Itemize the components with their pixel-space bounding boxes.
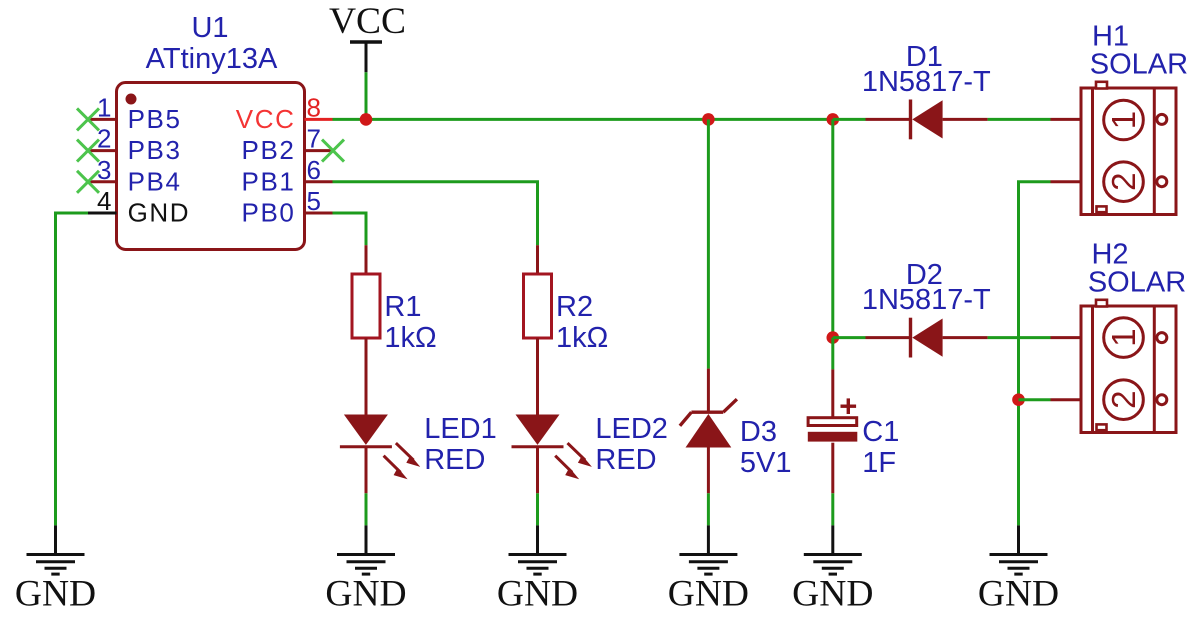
svg-text:ATtiny13A: ATtiny13A [146, 43, 278, 75]
svg-text:1kΩ: 1kΩ [556, 322, 608, 354]
svg-text:R2: R2 [556, 291, 593, 323]
pin 4 GND [88, 186, 190, 228]
svg-text:1N5817-T: 1N5817-T [862, 284, 991, 316]
junction at D3 column [702, 113, 715, 126]
svg-text:U1: U1 [191, 12, 228, 44]
svg-text:GND: GND [325, 574, 406, 615]
wire VCC rail to D3 [707, 119, 710, 368]
svg-text:6: 6 [307, 155, 323, 185]
svg-text:5: 5 [307, 186, 323, 216]
svg-text:1N5817-T: 1N5817-T [862, 66, 991, 98]
capacitor C1 [808, 369, 858, 493]
svg-text:GND: GND [497, 574, 578, 615]
no-connect X pin 7 [322, 140, 344, 162]
diode D2 [866, 318, 988, 358]
svg-text:GND: GND [128, 198, 191, 228]
ground symbol under H2 [978, 525, 1059, 614]
wire D2 junction to diode [833, 336, 866, 339]
svg-text:LED1: LED1 [424, 413, 497, 445]
svg-text:D3: D3 [740, 416, 777, 448]
svg-text:GND: GND [792, 574, 873, 615]
svg-text:R1: R1 [384, 291, 421, 323]
no-connect X pin 1 [77, 108, 99, 130]
svg-text:PB2: PB2 [242, 135, 296, 165]
svg-text:7: 7 [307, 124, 323, 154]
svg-text:PB1: PB1 [242, 166, 296, 196]
svg-text:1: 1 [97, 92, 113, 122]
wire D3 to GND [707, 493, 710, 525]
svg-text:1kΩ: 1kΩ [384, 322, 436, 354]
svg-text:VCC: VCC [236, 104, 296, 134]
ground symbol under D3 [668, 525, 749, 614]
wire U1 pin4 to GND [56, 213, 89, 525]
svg-text:2: 2 [1105, 173, 1142, 191]
pin 6 PB1 [242, 155, 333, 197]
wire H2 pin2 to junction [1019, 398, 1051, 401]
junction at H2 pin2 [1012, 393, 1025, 406]
svg-text:GND: GND [668, 574, 749, 615]
svg-text:PB0: PB0 [242, 198, 296, 228]
ground symbol under LED2 [497, 525, 578, 614]
svg-text:SOLAR: SOLAR [1090, 49, 1188, 81]
resistor R1 [352, 245, 380, 414]
pin 1 PB5 [88, 92, 182, 134]
pin 7 PB2 [242, 124, 333, 166]
svg-text:VCC: VCC [329, 1, 406, 42]
wire pin5 to R1 [333, 213, 367, 245]
connector H1 [1051, 82, 1177, 215]
svg-text:PB4: PB4 [128, 166, 182, 196]
junction at D2/C1 [827, 331, 840, 344]
no-connect X pin 3 [77, 171, 99, 193]
svg-text:1: 1 [1105, 328, 1142, 346]
svg-text:PB3: PB3 [128, 135, 182, 165]
IC U1 ATtiny13A body [117, 83, 305, 250]
svg-text:2: 2 [97, 124, 113, 154]
svg-text:8: 8 [307, 92, 323, 122]
wire VCC rail [333, 118, 833, 121]
wire H1 pin2 to vertical [1019, 182, 1051, 526]
wire D1 junction down to D2 junction [831, 119, 834, 337]
svg-text:PB5: PB5 [128, 104, 182, 134]
wire D1 junction to diode [833, 118, 866, 121]
svg-text:1F: 1F [862, 447, 896, 479]
junction at VCC [360, 113, 373, 126]
pin 5 PB0 [242, 186, 333, 228]
ground symbol under C1 [792, 525, 873, 614]
no-connect X pin 2 [77, 140, 99, 162]
connector H2 [1051, 300, 1177, 433]
svg-text:4: 4 [97, 186, 113, 216]
svg-text:SOLAR: SOLAR [1088, 267, 1186, 299]
wire D1 to H1 [988, 118, 1051, 121]
resistor R2 [524, 245, 552, 414]
svg-text:C1: C1 [862, 416, 899, 448]
wire VCC symbol to rail [365, 72, 368, 119]
power flag VCC [329, 1, 406, 72]
wire junction to C1 [831, 338, 834, 370]
svg-text:1: 1 [1105, 111, 1142, 129]
junction at D1 [827, 113, 840, 126]
svg-text:3: 3 [97, 155, 113, 185]
diode D1 [866, 100, 988, 140]
LED1 [340, 415, 420, 494]
ground symbol under LED1 [325, 525, 406, 614]
pin 3 PB4 [88, 155, 182, 197]
wire C1 to GND [831, 493, 834, 525]
svg-text:5V1: 5V1 [740, 447, 792, 479]
pin 2 PB3 [88, 124, 182, 166]
zener diode D3 [680, 369, 737, 494]
pin 8 VCC [236, 92, 333, 134]
svg-text:GND: GND [15, 574, 96, 615]
svg-text:LED2: LED2 [595, 413, 668, 445]
wire LED2 to GND [536, 493, 539, 525]
LED2 [512, 415, 592, 494]
svg-text:RED: RED [424, 444, 485, 476]
wire pin6 to R2 [333, 182, 538, 245]
ground symbol far left [15, 525, 96, 614]
wire D2 to H2 [988, 336, 1051, 339]
svg-text:2: 2 [1105, 391, 1142, 409]
svg-text:GND: GND [978, 574, 1059, 615]
wire LED1 to GND [365, 493, 368, 525]
svg-text:RED: RED [595, 444, 656, 476]
